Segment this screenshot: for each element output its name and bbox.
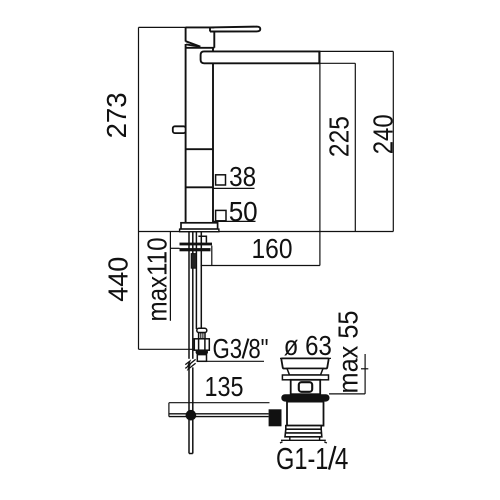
dimension 225 vertical line <box>354 63 356 231</box>
svg-text:max110: max110 <box>141 238 172 322</box>
hex facet lines <box>199 339 205 350</box>
housing bottom line <box>186 47 215 49</box>
threaded shank section <box>191 254 196 269</box>
drain neck <box>287 369 323 376</box>
svg-text:max 55: max 55 <box>333 311 364 394</box>
base plate upper <box>181 223 218 229</box>
lever handle <box>210 27 260 32</box>
washer bar below deck <box>180 243 213 246</box>
svg-text:225: 225 <box>324 116 355 157</box>
svg-text:G3: G3 <box>213 333 243 364</box>
svg-text:50: 50 <box>229 196 258 227</box>
dimension 135 line <box>169 402 270 404</box>
svg-text:240: 240 <box>368 114 399 154</box>
base plate lower <box>180 229 219 232</box>
dimension max110 nut dash <box>170 247 179 249</box>
linkage bottom line <box>169 416 269 418</box>
column left edge <box>185 44 187 223</box>
dimension 273 vertical line <box>138 27 140 231</box>
pop-up rod left line <box>188 232 190 454</box>
column joint line 2 <box>186 186 213 188</box>
dimension 273 top tick <box>139 26 187 28</box>
label G1-1/4 slash <box>329 446 335 470</box>
svg-text:G1-1: G1-1 <box>276 441 328 476</box>
svg-text:38: 38 <box>229 161 256 192</box>
svg-text:": " <box>261 333 269 364</box>
svg-text:8: 8 <box>248 333 260 364</box>
dimension 440 bottom connector <box>139 348 195 350</box>
svg-text:440: 440 <box>102 257 133 302</box>
drain connection black square <box>269 409 282 426</box>
dimension 160 line <box>201 265 320 267</box>
drain lever hole <box>299 382 312 392</box>
dimension max110 vertical line <box>169 232 171 321</box>
drain bottom line <box>280 440 327 443</box>
svg-text:135: 135 <box>205 371 244 402</box>
dimension 225 top connector <box>319 62 356 64</box>
fitting outlet stub <box>197 355 206 362</box>
drain bottom stub <box>290 437 320 440</box>
supply hose right line <box>200 232 202 329</box>
fitting neck <box>199 333 205 339</box>
svg-text:ø 63: ø 63 <box>284 330 332 361</box>
flange bottom extension dash <box>361 368 368 370</box>
deck / reference line <box>139 231 394 233</box>
underline of 38 <box>213 187 255 189</box>
G3/8 hose fitting <box>194 328 209 361</box>
handle housing left edge <box>185 27 187 41</box>
below-deck shank tubes <box>189 232 206 454</box>
drain upper body <box>291 380 321 394</box>
dimension 160 left box vertical <box>211 246 213 266</box>
dimension 440 vertical line <box>138 232 140 350</box>
drain flange <box>281 358 328 368</box>
break marks on rod <box>185 359 196 369</box>
nut bar below deck <box>180 248 211 251</box>
dimension 240 vertical line <box>392 51 394 231</box>
fitting hex <box>194 339 209 350</box>
fitting collar <box>197 328 207 332</box>
column right edge <box>212 48 214 223</box>
label square38 symbol <box>216 175 226 185</box>
side tab <box>173 126 186 133</box>
G3/8 leader line <box>199 360 264 362</box>
diameter 63 dimension line <box>280 357 331 359</box>
column joint line 1 <box>186 148 213 150</box>
underline of 50 <box>213 220 256 222</box>
drain lower band <box>286 426 321 430</box>
stud box <box>198 236 206 242</box>
dimension max55 bottom connector <box>329 393 365 395</box>
drain tube <box>287 402 324 426</box>
pop-up rod right line <box>192 232 194 454</box>
handle wedge diagonal lower <box>186 44 199 46</box>
dimension max55 vertical line <box>364 354 366 394</box>
drain flare <box>285 429 322 437</box>
label G3/8" slash <box>243 339 249 359</box>
dimension 240 top connector <box>319 50 394 52</box>
handle housing top <box>186 26 215 28</box>
spout end extension line <box>319 51 321 265</box>
label square50 symbol <box>216 210 226 220</box>
handle wedge diagonal upper <box>186 41 201 46</box>
rod bottom cap <box>189 453 193 455</box>
svg-text:4: 4 <box>335 441 349 476</box>
fitting neck hatches <box>201 333 203 339</box>
svg-text:160: 160 <box>252 233 293 264</box>
horizontal pop-up linkage rod <box>169 414 269 417</box>
drain seal ring <box>281 394 329 401</box>
linkage pivot dot <box>186 410 197 421</box>
spout <box>201 51 320 63</box>
supply hose left line <box>195 232 197 329</box>
dimension 135 left connector <box>168 403 170 417</box>
housing right edge <box>213 32 215 48</box>
drain washer disk <box>282 375 328 380</box>
linkage top line <box>169 413 269 415</box>
svg-text:273: 273 <box>101 92 132 138</box>
fitting dark band <box>196 350 208 355</box>
